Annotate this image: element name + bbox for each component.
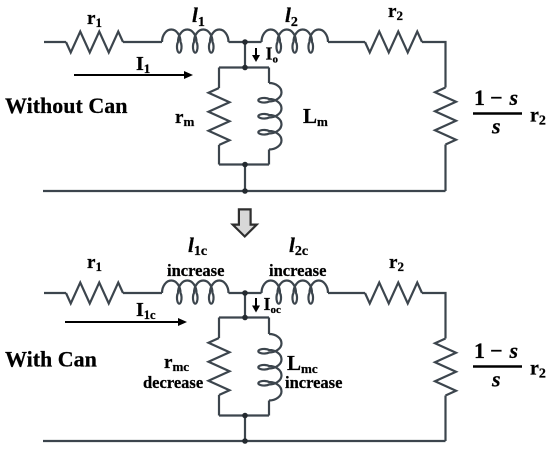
- svg-text:increase: increase: [285, 373, 342, 392]
- svg-text:increase: increase: [167, 261, 224, 280]
- svg-text:I1c: I1c: [136, 299, 156, 322]
- svg-text:r1: r1: [87, 8, 102, 30]
- svg-text:Without Can: Without Can: [5, 93, 127, 118]
- svg-text:Lm: Lm: [303, 104, 328, 129]
- svg-text:r2: r2: [530, 358, 546, 382]
- svg-text:l1c: l1c: [188, 233, 207, 259]
- svg-text:l2c: l2c: [289, 233, 308, 259]
- svg-text:r2: r2: [530, 105, 546, 129]
- svg-text:l2: l2: [285, 3, 298, 30]
- svg-text:I1: I1: [136, 53, 150, 76]
- svg-text:rm: rm: [175, 107, 194, 129]
- svg-text:With Can: With Can: [5, 347, 97, 372]
- svg-text:r1: r1: [87, 252, 102, 274]
- svg-text:s: s: [491, 367, 501, 392]
- svg-text:rmc: rmc: [164, 352, 189, 374]
- svg-text:increase: increase: [269, 261, 326, 280]
- svg-text:s: s: [491, 114, 501, 139]
- svg-text:Ioc: Ioc: [264, 294, 282, 316]
- svg-text:r2: r2: [388, 1, 403, 23]
- svg-text:r2: r2: [389, 252, 404, 274]
- svg-text:1−s: 1−s: [474, 338, 518, 363]
- svg-text:decrease: decrease: [143, 373, 203, 392]
- svg-text:1−s: 1−s: [474, 85, 518, 110]
- svg-text:l1: l1: [192, 3, 205, 30]
